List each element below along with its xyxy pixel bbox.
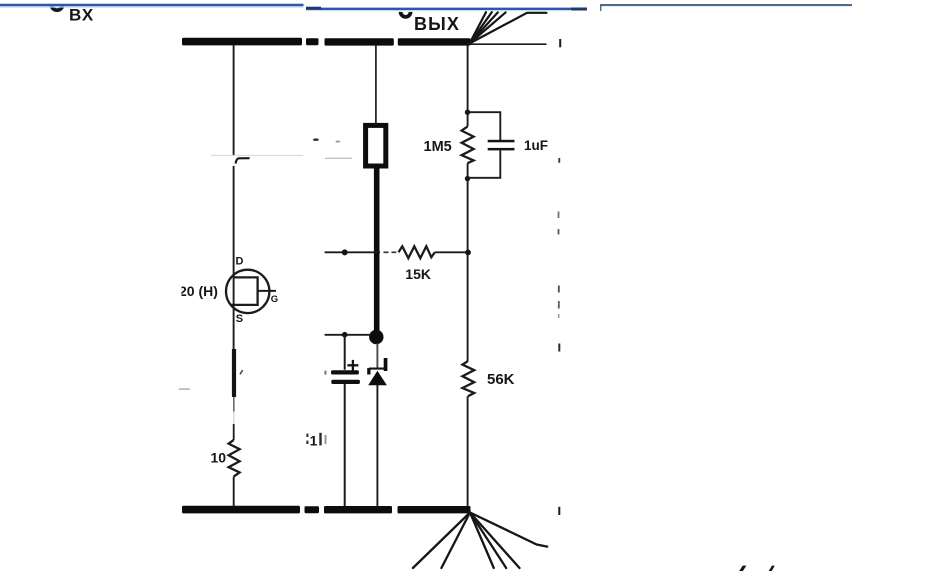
svg-text:ВЫХ: ВЫХ: [414, 14, 460, 34]
capacitor C1 bottom plate: [331, 380, 360, 384]
svg-text:S: S: [236, 313, 243, 325]
transistor Q1 channel/body: [231, 277, 257, 305]
wire bottom ground bus bar segment 3: [324, 506, 392, 513]
resistor R-load bold rectangle body: [366, 125, 386, 166]
wire source lead below transistor: [233, 305, 235, 349]
wire small slash artifact: [240, 370, 243, 374]
wire left branch vertical, to transistor drain: [233, 166, 235, 277]
wire bottom ground bus bar segment 4: [398, 506, 471, 513]
diode D1 cathode right tick: [384, 358, 388, 371]
wire thick inked segment: [232, 349, 236, 397]
diode D1 cathode bar: [369, 368, 386, 370]
transistor Q1 internal vertical wire: [233, 277, 235, 305]
wire right margin tick column: [558, 158, 561, 352]
wire capacitor C1 bottom lead: [344, 384, 346, 506]
wire drain-load branch: thin lead from top bus: [375, 45, 377, 124]
capacitor 1uF branch: top link: [468, 112, 501, 140]
svg-text:1: 1: [310, 432, 318, 448]
svg-text:1M5: 1M5: [424, 139, 452, 155]
wire smudge dash dark: [313, 139, 318, 141]
wire to resistor 10: [233, 424, 235, 440]
svg-text:G: G: [271, 294, 278, 305]
svg-text:ВХ: ВХ: [69, 6, 94, 25]
wire blue top rule right segment: [600, 5, 852, 11]
node junction dot on gate line: [342, 249, 348, 255]
wire faint dashes after bold wire: [384, 251, 389, 253]
transistor Q1 gate lead: [258, 290, 276, 292]
wire erased-line ghost y=155: [211, 154, 303, 156]
diode D1 cathode left tick: [367, 368, 370, 374]
diode D1 triangle (anode): [368, 371, 387, 386]
wire elbow artifact: [236, 158, 250, 163]
svg-text:20 (H): 20 (H): [179, 283, 218, 299]
wire left branch vertical (drain side), upper: [233, 45, 235, 156]
capacitor 1uF bottom plate: [488, 148, 515, 151]
wire blue top rule middle segment: [306, 7, 587, 11]
text partial label (1|: [306, 432, 326, 448]
wire 15K to right branch: [435, 251, 467, 253]
capacitor C1 top plate: [331, 370, 359, 374]
wire blue top rule left segment: [0, 5, 304, 7]
white clip over label: [170, 281, 182, 299]
capacitor 1uF top plate: [488, 140, 515, 143]
wire bold lead below box: [374, 168, 380, 332]
wire ghost gap segment: [233, 412, 235, 425]
mark slash 2 bottom right: [769, 566, 775, 571]
transistor Q1 JFET circle: [226, 270, 269, 313]
wire smudge dash left of bottom area: [179, 388, 190, 390]
wire tick right of bottom bus: [558, 507, 560, 515]
wire smudge left of cap: [324, 371, 326, 375]
wire top fan-out lines at node (469.5,43.5): [470, 12, 547, 43]
wire bottom ground bus bar segment 1: [182, 506, 300, 514]
wire bottom ground bus bar segment 2: [305, 506, 320, 513]
resistor 56K: [462, 361, 474, 396]
node junction dot top of 1M5: [465, 110, 470, 115]
resistor 1M5: [462, 127, 474, 164]
svg-text:D: D: [236, 255, 244, 267]
node junction dot bottom of 1M5: [465, 176, 470, 181]
wire horizontal at gate bias node: [325, 334, 370, 336]
wire smudge dash light: [336, 141, 341, 143]
wire capacitor C1 top lead: [344, 335, 346, 370]
resistor 15K: [399, 246, 435, 258]
node junction dot right end 15K: [465, 250, 471, 256]
capacitor C1 polarity plus sign: [347, 360, 358, 371]
mark slash 1 bottom right: [739, 566, 746, 571]
wire gate bias horizontal to 15K: [325, 251, 380, 253]
wire top supply bus bar segment 4: [398, 38, 471, 45]
wire thin horizontal from top node to right: [470, 43, 547, 45]
node input terminal (partial circle): [51, 5, 62, 11]
wire top supply bus bar segment 3: [325, 38, 394, 45]
wire resistor 10 to bottom bus: [233, 477, 235, 506]
node junction big dot: [369, 330, 383, 344]
node output terminal (partial circle): [401, 12, 411, 17]
resistor 10 (source resistor): [229, 440, 240, 477]
wire top supply bus bar segment 1: [182, 38, 302, 46]
svg-text:56K: 56K: [487, 371, 515, 388]
wire right branch vertical: [467, 46, 469, 127]
wire erased-line ghost y=158: [325, 157, 352, 159]
wire bottom fan-out lines at node (470,512.5): [413, 513, 547, 569]
svg-text:15K: 15K: [405, 266, 431, 282]
svg-text:10: 10: [211, 450, 227, 466]
diode D1 bottom lead: [376, 385, 378, 506]
wire faded segment: [233, 397, 235, 412]
wire top supply bus bar segment 2: [306, 38, 319, 45]
capacitor 1uF bottom link: [468, 150, 501, 177]
diode D1 top faint lead: [376, 344, 378, 369]
wire tick right of top bus: [559, 39, 561, 47]
svg-text:1uF: 1uF: [524, 138, 548, 153]
node junction small dot: [342, 332, 348, 338]
